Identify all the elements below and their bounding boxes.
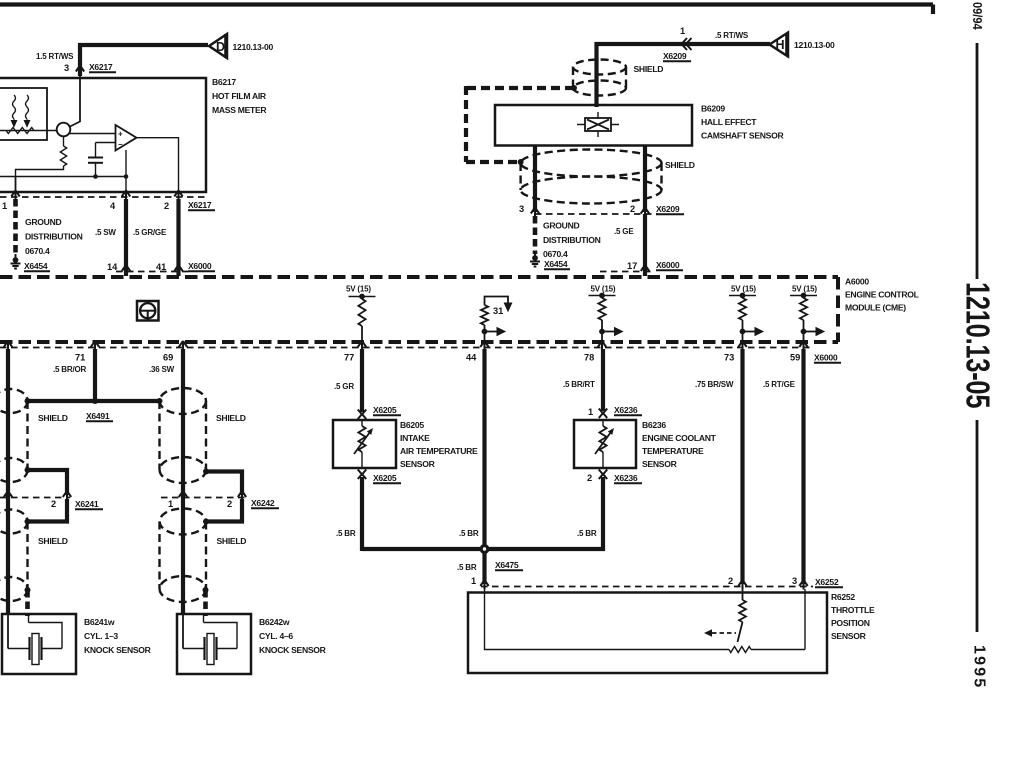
capacitor C1 [88, 143, 103, 177]
svg-text:0670.4: 0670.4 [543, 249, 568, 259]
svg-text:.5 SW: .5 SW [95, 228, 116, 237]
connector X6000 pin 41 [174, 265, 182, 275]
junction X6242 branch [203, 469, 209, 475]
svg-text:DISTRIBUTION: DISTRIBUTION [25, 232, 83, 242]
svg-text:B6217: B6217 [212, 77, 236, 87]
svg-text:1210.13-05: 1210.13-05 [959, 282, 996, 408]
sense resistor [6, 128, 34, 134]
svg-text:78: 78 [584, 353, 594, 363]
svg-text:X6217: X6217 [188, 200, 212, 210]
junction X6241 branch [25, 467, 31, 473]
connector line X6000 left [116, 271, 188, 273]
label X6454 right [544, 259, 570, 269]
box R6252 [468, 593, 827, 674]
junction pin59 branch [801, 329, 807, 335]
svg-text:B6241w: B6241w [84, 617, 115, 627]
resistor pull-up pin77 [358, 299, 365, 326]
branch arrow pin73 [743, 328, 764, 336]
junction shield lower-right top [203, 519, 209, 525]
TPS series resistor [739, 589, 746, 622]
thermistor B6205 [354, 420, 373, 468]
junction shield drain upper [571, 85, 577, 91]
svg-text:X6454: X6454 [544, 259, 568, 269]
junction shield left X6491 [25, 398, 31, 404]
wire pin78 to X6236 [601, 349, 605, 411]
svg-text:SHIELD: SHIELD [665, 160, 695, 170]
wire .5 RT/WS pin1 to connector H [597, 44, 771, 107]
svg-text:2: 2 [227, 499, 232, 509]
connector X6000 pin 17 [641, 265, 649, 275]
svg-text:CYL. 1–3: CYL. 1–3 [84, 631, 118, 641]
svg-text:X6236: X6236 [614, 473, 638, 483]
svg-text:THROTTLE: THROTTLE [831, 605, 875, 615]
svg-text:R6252: R6252 [831, 592, 855, 602]
wire X6205 to ground bus [360, 477, 364, 551]
label X6217 bottom [188, 200, 215, 210]
svg-text:TEMPERATURE: TEMPERATURE [642, 446, 704, 456]
label X6000 right [656, 260, 683, 270]
svg-text:3: 3 [792, 576, 797, 586]
box B6205 [333, 420, 396, 468]
wire resistor to pin59 [803, 320, 805, 343]
shield can upper-left [0, 389, 28, 482]
connector X6209 pin 3 [531, 208, 539, 218]
node 5V pin77 [349, 294, 376, 300]
svg-text:5V (15): 5V (15) [731, 285, 756, 294]
connector X6236 top [599, 409, 607, 419]
wire resistor to pin77 [361, 326, 363, 343]
svg-text:41: 41 [156, 262, 166, 272]
junction shield drain lower [518, 159, 524, 165]
label X6205 bottom [373, 473, 401, 483]
svg-text:69: 69 [163, 353, 173, 363]
hall sensor symbol [577, 112, 619, 137]
connector X6217 pin 2 [174, 191, 182, 201]
resistor pull-up pin73 [739, 298, 746, 320]
svg-text:71: 71 [75, 353, 85, 363]
ground rail in B6217 [0, 176, 126, 178]
svg-text:31: 31 [493, 306, 503, 316]
svg-text:.5 RT/GE: .5 RT/GE [763, 380, 796, 389]
svg-text:CAMSHAFT SENSOR: CAMSHAFT SENSOR [701, 131, 784, 141]
box B6209 [495, 105, 692, 146]
svg-text:1210.13-00: 1210.13-00 [233, 42, 274, 52]
TPS wiper [738, 622, 743, 642]
resistor pull-up pin59 [800, 298, 807, 320]
connector pin 59 [799, 341, 807, 351]
svg-text:1995: 1995 [971, 645, 988, 689]
svg-text:2: 2 [630, 204, 635, 214]
svg-text:2: 2 [51, 499, 56, 509]
svg-text:SHIELD: SHIELD [216, 413, 246, 423]
right margin lower rule [976, 420, 979, 632]
svg-text:SENSOR: SENSOR [400, 459, 436, 469]
ground symbol X6454 left [11, 254, 21, 269]
wire pin59 to TPS pin3 [801, 349, 805, 584]
junction pin78 branch [599, 329, 605, 335]
connector line X6000 (ECM pins) [0, 347, 812, 349]
svg-text:SHIELD: SHIELD [38, 536, 68, 546]
transistor Q1 [57, 123, 71, 137]
off-page connector H [770, 33, 789, 57]
op-amp U1 [116, 125, 137, 151]
svg-text:SHIELD: SHIELD [634, 64, 664, 74]
svg-text:.5 BR: .5 BR [457, 563, 477, 572]
svg-text:DISTRIBUTION: DISTRIBUTION [543, 235, 601, 245]
svg-text:D: D [216, 40, 225, 54]
svg-text:B6242w: B6242w [259, 617, 290, 627]
label X6242 [251, 498, 279, 508]
svg-text:CYL. 4–6: CYL. 4–6 [259, 631, 293, 641]
svg-text:.36 SW: .36 SW [149, 365, 175, 374]
connector line X6252 [481, 586, 813, 588]
svg-text:INTAKE: INTAKE [400, 433, 430, 443]
svg-text:KNOCK SENSOR: KNOCK SENSOR [259, 645, 327, 655]
svg-text:X6475: X6475 [495, 560, 519, 570]
svg-text:SHIELD: SHIELD [217, 536, 247, 546]
return wire X6241 [28, 499, 68, 522]
svg-text:09/94: 09/94 [970, 2, 985, 30]
wire 1.5 RT/WS pin 3 to connector D [80, 45, 208, 76]
label X6205 top [373, 405, 401, 415]
wire sense to transistor [0, 130, 57, 132]
shield bus X6491 [28, 399, 160, 403]
svg-text:2: 2 [587, 473, 592, 483]
svg-text:KNOCK SENSOR: KNOCK SENSOR [84, 645, 152, 655]
svg-text:5V (15): 5V (15) [792, 285, 817, 294]
connector X6000 pin 14 [122, 265, 130, 275]
A6000 ECM bottom boundary [0, 340, 838, 344]
connector X6241 pin 2 [63, 491, 71, 501]
connector X6209 pin 1 [682, 38, 692, 50]
svg-text:SENSOR: SENSOR [642, 459, 678, 469]
piezo element B6241w [8, 614, 62, 665]
branch arrow pin59 [804, 328, 825, 336]
branch arrow pin44 [485, 328, 506, 336]
branch wire X6242 [206, 472, 242, 496]
svg-text:B6205: B6205 [400, 420, 424, 430]
connector X6241 pin 1 [4, 491, 12, 501]
wire transistor to op-amp + [70, 133, 116, 135]
label X6454 left [24, 261, 50, 271]
wire pin3 into transistor [69, 76, 80, 127]
svg-text:X6236: X6236 [614, 405, 638, 415]
svg-text:3: 3 [519, 204, 524, 214]
wire pin2 to pin41 [176, 199, 180, 276]
wire pin4 to pin14 [124, 199, 128, 276]
connector line X6217 bottom [0, 196, 206, 198]
svg-text:B6236: B6236 [642, 420, 666, 430]
svg-text:X6242: X6242 [251, 498, 275, 508]
A6000 ECM right boundary [836, 277, 840, 342]
connector pin 44 [480, 341, 488, 351]
box B6242w [177, 614, 251, 674]
svg-text:X6252: X6252 [815, 577, 839, 587]
label X6252 [815, 577, 843, 587]
wire pin2 to pin17 [643, 214, 647, 276]
svg-text:X6217: X6217 [89, 62, 113, 72]
svg-text:17: 17 [627, 261, 637, 271]
svg-text:ENGINE COOLANT: ENGINE COOLANT [642, 433, 717, 443]
svg-text:MASS METER: MASS METER [212, 105, 267, 115]
wire resistor to pin44 [484, 325, 486, 343]
junction X6475 [480, 544, 490, 554]
connector X6242 pin 2 [238, 491, 246, 501]
terminal 31 arrow [504, 303, 511, 311]
emitter resistor [60, 136, 66, 166]
svg-text:X6454: X6454 [24, 261, 48, 271]
label X6236 top [614, 405, 642, 415]
svg-text:.5 BR/RT: .5 BR/RT [563, 380, 595, 389]
wire B6209 pin 2 [643, 146, 647, 213]
connector X6252 pin 3 [799, 580, 807, 590]
connector X6217 pin 1 [11, 191, 19, 201]
shield drain to B6242w [203, 590, 208, 616]
svg-text:GROUND: GROUND [25, 217, 61, 227]
svg-text:X6205: X6205 [373, 473, 397, 483]
ground wire X6454 left [13, 199, 18, 256]
svg-text:AIR TEMPERATURE: AIR TEMPERATURE [400, 446, 478, 456]
svg-text:HOT FILM AIR: HOT FILM AIR [212, 91, 267, 101]
label X6209 bottom [656, 204, 684, 214]
svg-text:MODULE (CME): MODULE (CME) [845, 303, 906, 313]
connector pin 73 [738, 341, 746, 351]
resistor pull-up pin78 [598, 298, 605, 320]
connector X6209 pin 2 [641, 208, 649, 218]
svg-text:.5 BR: .5 BR [577, 529, 597, 538]
label X6241 [75, 499, 103, 509]
right margin upper rule [976, 43, 979, 279]
connector X6242 pin 1 [179, 491, 187, 501]
svg-text:GROUND: GROUND [543, 221, 579, 231]
svg-text:SENSOR: SENSOR [831, 631, 867, 641]
svg-text:5V (15): 5V (15) [346, 285, 371, 294]
svg-text:B6209: B6209 [701, 104, 725, 114]
svg-text:14: 14 [107, 262, 118, 272]
junction feedback/rail [124, 174, 129, 179]
svg-text:X6491: X6491 [86, 411, 110, 421]
node 5V pin73 [729, 293, 756, 299]
label X6209 top [663, 51, 691, 61]
ground wire X6454 right [533, 216, 538, 254]
heater element right [24, 95, 29, 127]
shield can lower-left [0, 510, 28, 602]
svg-text:HALL EFFECT: HALL EFFECT [701, 117, 757, 127]
wire feedback to rail [125, 150, 127, 196]
connector pin 78 [598, 341, 606, 351]
box B6241w [2, 614, 76, 674]
connector line X6209 bottom [535, 213, 658, 215]
connector X6252 pin 1 [480, 580, 488, 590]
connector X6252 pin 2 [738, 580, 746, 590]
wire pin1 stub [15, 177, 17, 197]
svg-text:1: 1 [588, 407, 593, 417]
shield drain wire (dashed) [466, 86, 574, 162]
shield can upper-right [160, 388, 207, 483]
ground bus .5 BR [362, 547, 605, 551]
svg-text:+: + [118, 130, 123, 139]
svg-text:77: 77 [344, 353, 354, 363]
junction pin44 branch [482, 329, 488, 335]
TPS wiper arrowhead [704, 629, 712, 636]
connector X6236 bottom [599, 470, 607, 480]
thermistor B6236 [595, 420, 614, 468]
junction shield right X6491 [157, 398, 163, 404]
junction shield lower-left top [25, 519, 31, 525]
connector pin 71 [91, 341, 99, 351]
svg-text:−: − [118, 140, 123, 149]
off-page connector D [209, 34, 227, 58]
resistor pull-up pin44 [481, 305, 488, 325]
svg-text:3: 3 [64, 63, 69, 73]
svg-text:2: 2 [728, 576, 733, 586]
svg-text:1: 1 [680, 26, 685, 36]
svg-text:1: 1 [471, 576, 476, 586]
sensing element box [0, 88, 47, 140]
svg-text:2: 2 [164, 201, 169, 211]
box B6236 [574, 420, 636, 468]
junction shield lower-left drain [25, 587, 31, 593]
box B6217 [0, 78, 206, 192]
TPS track resistor [729, 647, 751, 653]
wire B6209 pin 3 [533, 146, 537, 213]
junction shield lower-right drain [203, 587, 209, 593]
svg-text:X6241: X6241 [75, 499, 99, 509]
shield drain to B6241w [25, 590, 30, 616]
svg-text:.5 GE: .5 GE [614, 227, 634, 236]
junction pin73 branch [740, 329, 746, 335]
svg-text:H: H [775, 38, 784, 52]
wire pin77 to X6205 [360, 349, 364, 412]
connector knock pin (left) [4, 341, 12, 351]
node 5V pin59 [790, 293, 817, 299]
svg-text:A6000: A6000 [845, 277, 869, 287]
svg-text:1: 1 [168, 499, 173, 509]
label X6000 left [188, 261, 215, 271]
wire pin71 to X6491 [93, 349, 97, 401]
svg-text:.5 BR: .5 BR [336, 529, 356, 538]
svg-text:.5 GR: .5 GR [334, 382, 354, 391]
shield can lower (B6209) [521, 150, 662, 204]
label X6217 [89, 62, 116, 72]
svg-text:5V (15): 5V (15) [591, 285, 616, 294]
svg-text:73: 73 [724, 353, 734, 363]
svg-text:X6000: X6000 [814, 353, 838, 363]
wire op-amp output [137, 138, 179, 196]
TPS wiper arrow [712, 632, 736, 634]
connector line X6000 right [600, 271, 652, 273]
label X6236 bottom [614, 473, 642, 483]
connector line X6242 [161, 497, 246, 499]
shield can lower-right [160, 509, 207, 603]
svg-text:44: 44 [466, 353, 477, 363]
label X6491 [86, 411, 113, 421]
connector pin 69 [179, 341, 187, 351]
connector X6217 pin 4 [122, 191, 130, 201]
branch arrow pin78 [602, 328, 623, 336]
steering wheel symbol [137, 301, 159, 321]
svg-text:4: 4 [110, 201, 116, 211]
wire resistor to pin78 [601, 320, 603, 343]
svg-text:.5 RT/WS: .5 RT/WS [715, 31, 749, 40]
junction cap/rail [93, 174, 98, 179]
svg-text:.5 BR/OR: .5 BR/OR [53, 365, 86, 374]
bracket wire pin44 [485, 297, 509, 306]
label X6475 [495, 560, 523, 570]
svg-text:.75 BR/SW: .75 BR/SW [695, 380, 734, 389]
svg-text:X6205: X6205 [373, 405, 397, 415]
svg-text:59: 59 [790, 353, 800, 363]
svg-text:0670.4: 0670.4 [25, 246, 50, 256]
wire knock signal right [181, 349, 185, 614]
wire resistor to pin73 [742, 320, 744, 343]
svg-text:.5 GR/GE: .5 GR/GE [133, 228, 167, 237]
connector line X6241 [0, 497, 70, 499]
connector X6205 top [358, 410, 366, 420]
branch wire X6241 [28, 470, 68, 495]
piezo element B6242w [183, 614, 237, 665]
return wire X6242 [206, 499, 242, 522]
svg-text:POSITION: POSITION [831, 618, 870, 628]
connector X6217 pin 3 [76, 66, 84, 76]
wire pin44 to TPS pin1 [482, 349, 486, 584]
heater element left [11, 95, 16, 127]
svg-text:1: 1 [2, 201, 7, 211]
wire cap to op-amp - [96, 142, 116, 144]
svg-text:1210.13-00: 1210.13-00 [794, 40, 835, 50]
wire pin73 to TPS pin2 [740, 349, 744, 584]
A6000 ECM top boundary [0, 275, 838, 279]
svg-text:SHIELD: SHIELD [38, 413, 68, 423]
svg-text:ENGINE CONTROL: ENGINE CONTROL [845, 290, 919, 300]
svg-text:X6209: X6209 [663, 51, 687, 61]
ground symbol X6454 right [530, 252, 540, 267]
svg-text:1.5 RT/WS: 1.5 RT/WS [36, 52, 74, 61]
svg-text:X6209: X6209 [656, 204, 680, 214]
svg-text:.5 BR: .5 BR [459, 529, 479, 538]
wire X6236 to ground bus [601, 477, 605, 551]
page top border [0, 5, 933, 15]
TPS inner wire pin1 [485, 589, 730, 650]
label X6000 (ECM row) [814, 353, 841, 363]
junction pin71 X6491 [92, 398, 98, 404]
svg-text:X6000: X6000 [656, 260, 680, 270]
TPS inner wire pin3 [751, 589, 805, 650]
wire emitter resistor to rail [16, 166, 64, 177]
node 5V pin78 [589, 293, 616, 299]
connector X6205 bottom [358, 470, 366, 480]
shield can upper (B6209) [573, 60, 626, 96]
svg-text:X6000: X6000 [188, 261, 212, 271]
connector pin 77 [358, 341, 366, 351]
wire knock signal left [6, 349, 10, 614]
